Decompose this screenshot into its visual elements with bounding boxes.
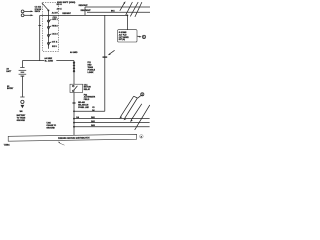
connector circle C1 pin A [21, 10, 33, 13]
svg-text:ST 4: ST 4 [52, 41, 58, 44]
wire top bus RED/WHT [85, 6, 150, 8]
connector circle C1 pin B [21, 14, 33, 17]
ground arrow G1 [21, 105, 25, 108]
ignition switch box U1 (dashed) [43, 2, 59, 51]
contact position 1 [48, 19, 52, 23]
off-page arrow D2 [126, 2, 133, 15]
svg-text:LINK: LINK [88, 72, 95, 74]
contact labels [52, 12, 59, 49]
annotation arrow to connector [108, 50, 115, 55]
node junction J2 [73, 110, 75, 112]
svg-text:A0 14RD: A0 14RD [70, 51, 78, 54]
node dot bus 3 [73, 126, 75, 128]
svg-text:RED/WHT: RED/WHT [79, 5, 89, 7]
svg-text:BATRY: BATRY [7, 87, 14, 90]
svg-text:BA1: BA1 [91, 116, 95, 119]
wire drop to module box [126, 15, 128, 29]
wire battery bus right segment [56, 60, 74, 62]
battery left label S2 [7, 86, 14, 90]
node dot bus 2 [73, 122, 75, 124]
svg-text:GROUND: GROUND [17, 120, 26, 122]
off-page diagonal B2 [135, 105, 150, 130]
svg-text:BATT: BATT [6, 70, 12, 73]
connector label text [35, 7, 42, 14]
svg-text:B2 5: B2 5 [52, 46, 57, 48]
ground bus line 3 [74, 126, 150, 128]
cable stub to circle [138, 96, 141, 99]
wire bus 2 DB/WHT [87, 11, 150, 13]
wire long vertical feed [104, 15, 106, 111]
wire main output RED/WHT [49, 14, 128, 16]
contact position 3 [48, 34, 52, 38]
svg-text:BA3: BA3 [91, 124, 95, 127]
module box text [119, 32, 130, 41]
node dot bus 1 [73, 118, 75, 120]
svg-text:W4: W4 [20, 110, 24, 113]
svg-text:SWCH: SWCH [35, 11, 41, 13]
switch pivot dot [47, 9, 49, 11]
svg-text:A4 ST: A4 ST [52, 12, 59, 15]
svg-text:B+ 14RD: B+ 14RD [45, 60, 54, 63]
corner labels C1 [92, 107, 94, 112]
battery cable ribbon line 2 [124, 98, 138, 120]
switch terminal labels [57, 3, 63, 10]
ground terminal bar [20, 96, 24, 98]
svg-text:C2 B: C2 B [53, 17, 58, 19]
wire battery bus horizontal [22, 60, 44, 62]
svg-text:RELAY: RELAY [84, 88, 91, 91]
wire horizontal return [74, 110, 105, 112]
battery left label A0 [6, 68, 12, 73]
ground bus line 1 [74, 118, 150, 120]
ground distribution bar [8, 134, 136, 141]
svg-text:A4 18BK: A4 18BK [44, 57, 52, 60]
svg-text:FUSBL LNK: FUSBL LNK [78, 107, 89, 109]
svg-text:INT (A): INT (A) [119, 38, 126, 41]
relay box K1 [70, 84, 83, 92]
ground eyelet circle [21, 100, 24, 103]
svg-text:GROUND: GROUND [46, 127, 55, 129]
svg-text:FIELD: FIELD [84, 99, 90, 101]
wire below relay [73, 93, 75, 136]
arrow to connector circle [137, 36, 141, 38]
off-page arrow D3 [130, 2, 138, 16]
battery minus wire [21, 77, 23, 97]
wire stub switch feed [40, 14, 49, 16]
label TJ05 ground block [46, 122, 56, 129]
wire battery drop [21, 61, 23, 68]
contact position 2 [48, 26, 52, 30]
cable ribbon top cap [134, 96, 138, 98]
connector circle 2 [141, 93, 144, 97]
relay lever [74, 86, 78, 90]
off-page arrow D1 [120, 1, 126, 11]
svg-text:RUN 2: RUN 2 [52, 26, 58, 28]
inline connector dash C100 [103, 56, 108, 58]
inline connector double dash [73, 103, 76, 104]
label MD-AM block [78, 101, 89, 109]
switch lever [42, 3, 48, 10]
off-page arrow D4 [135, 2, 142, 17]
svg-text:OFF 1: OFF 1 [52, 19, 58, 21]
connector circle 1 [142, 35, 145, 39]
battery terminal bar [20, 67, 24, 69]
svg-text:ACC 3: ACC 3 [52, 33, 58, 36]
label F22 block [84, 94, 96, 101]
battery cable ribbon line 1 [119, 96, 133, 118]
svg-text:BK1: BK1 [111, 11, 115, 13]
relay label C14 [84, 83, 92, 91]
svg-text:B1 C4: B1 C4 [57, 3, 63, 6]
battery B1 plates [19, 70, 27, 76]
switch contact chain wire [48, 10, 50, 48]
inline connector tick [38, 25, 41, 27]
off-page diagonal B1 [130, 104, 142, 122]
wire riser to top bus [84, 7, 86, 15]
contact position 4 [48, 42, 52, 46]
svg-text:C3: C3 [92, 107, 94, 109]
module box U2 [118, 30, 137, 42]
relay contact bottom [73, 90, 75, 92]
svg-text:BA2: BA2 [91, 120, 95, 123]
svg-text:A2 C1: A2 C1 [57, 7, 62, 10]
svg-text:DBL/WHT: DBL/WHT [81, 10, 92, 12]
node junction J1 [127, 15, 129, 17]
svg-text:TJ5B1: TJ5B1 [4, 144, 11, 146]
relay contact top [73, 85, 75, 87]
connector circle after bar [140, 135, 144, 139]
ground bus line 2 [74, 122, 150, 124]
svg-text:RED/WHT: RED/WHT [62, 13, 71, 15]
under-bar arrow [58, 142, 65, 146]
fuse F21 label block [88, 62, 96, 74]
wire switch feed vertical [39, 15, 41, 60]
fusible link symbol chain [73, 61, 75, 85]
ground text block [17, 114, 26, 122]
